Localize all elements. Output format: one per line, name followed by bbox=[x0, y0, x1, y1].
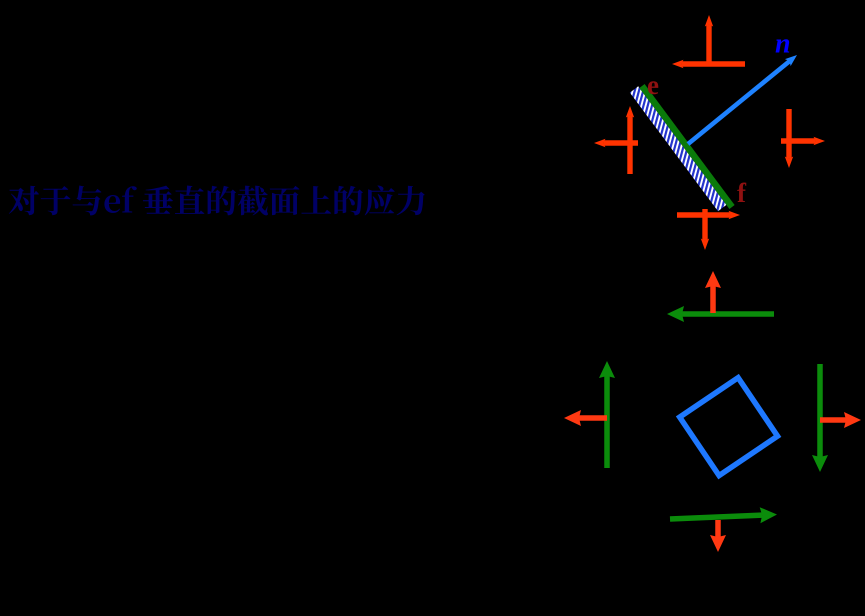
section line ef bbox=[642, 86, 732, 207]
top shear arrow green left bbox=[682, 311, 774, 317]
top stress arrow up bbox=[706, 24, 711, 62]
right stress arrow right bbox=[781, 138, 816, 143]
hatch band on section ef bbox=[630, 86, 727, 211]
top normal arrow red up bbox=[710, 286, 716, 313]
title text 对于与ef 垂直的截面上的应力 bbox=[9, 186, 425, 216]
blue rotated square element bbox=[680, 378, 778, 476]
top stress arrow left bbox=[681, 61, 745, 66]
svg-text:n: n bbox=[775, 29, 791, 60]
svg-text:e: e bbox=[647, 70, 659, 100]
left normal arrow red left bbox=[579, 415, 607, 421]
right stress arrow down bbox=[786, 109, 791, 159]
left stress arrow left bbox=[603, 140, 638, 145]
left shear arrow green up bbox=[604, 376, 610, 468]
bottom shear arrow green right bbox=[670, 515, 762, 519]
normal arrow n bbox=[688, 61, 790, 144]
bottom normal arrow red down bbox=[715, 520, 721, 537]
svg-text:f: f bbox=[737, 178, 747, 208]
bottom stress arrow down bbox=[702, 209, 707, 241]
right normal arrow red right bbox=[820, 417, 846, 423]
right shear arrow green down bbox=[817, 364, 823, 457]
bottom stress arrow right bbox=[677, 212, 731, 217]
left stress arrow up bbox=[627, 115, 632, 174]
